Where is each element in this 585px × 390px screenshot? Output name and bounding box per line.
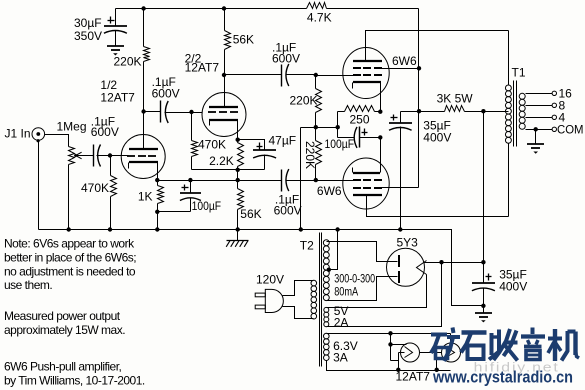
- wire 6.3V return: [327, 361, 451, 371]
- resistor R10 220K (upper bias): [289, 75, 321, 128]
- resistor R1 220K (V1a plate load): [113, 9, 149, 112]
- node COM ground tap: [534, 127, 538, 131]
- wire tap COM: [526, 127, 557, 131]
- note text block 2: [4, 309, 125, 337]
- wire to 6W6 no.1 grid: [316, 75, 355, 77]
- wire bias mid to ground drop: [301, 127, 316, 129]
- svg-text:5Y3: 5Y3: [397, 236, 419, 250]
- wire HV bottom tap to plate 2: [327, 277, 398, 301]
- svg-text:6W6: 6W6: [317, 184, 342, 198]
- V2 grid: [208, 111, 238, 113]
- ground (COM): [527, 144, 544, 154]
- node rail/35uF screen: [398, 227, 402, 231]
- watermark hifidiy.net: [474, 360, 560, 375]
- label 5Y3: [397, 236, 419, 250]
- label 6.3V 3A: [333, 339, 358, 365]
- wire to 6W6 no.2 grid: [316, 180, 355, 182]
- wire B+ rail right segment: [327, 8, 419, 10]
- node heater 1 return: [396, 368, 400, 372]
- node 100uF tap: [188, 178, 192, 182]
- svg-text:220K: 220K: [289, 94, 317, 108]
- V3 control grid: [353, 74, 382, 76]
- label 6W6 no.2: [317, 184, 342, 198]
- node screen junction no.1: [417, 66, 421, 70]
- node rail/1Meg: [67, 227, 71, 231]
- wire heater 2 top feed: [450, 334, 452, 343]
- note text block 1: [4, 237, 136, 293]
- capacitor C10 35uF 400V (reservoir): [472, 263, 527, 306]
- transformer T2 core: [320, 233, 322, 367]
- svg-text:better in place of the 6W6s;: better in place of the 6W6s;: [4, 250, 136, 264]
- svg-text:12AT7: 12AT7: [185, 61, 220, 75]
- wire tap 8: [526, 103, 557, 107]
- svg-text:400V: 400V: [499, 280, 527, 294]
- V4 control grid: [353, 179, 382, 181]
- V1a plate: [129, 148, 158, 150]
- svg-text:no adjustment is needed to: no adjustment is needed to: [4, 264, 136, 278]
- capacitor C3 .1uF 600V (to 6W6 no.1 grid): [225, 40, 316, 86]
- wire ground drop: [300, 128, 302, 230]
- wire heater drop: [390, 334, 392, 361]
- resistor R6 470K (V2 grid leak): [192, 113, 227, 170]
- resistor R11 220K (lower bias): [303, 128, 322, 181]
- node V1a cathode junction: [155, 178, 159, 182]
- pentode V3 6W6 no.1 envelope: [343, 48, 389, 99]
- node V2 cathode junction: [236, 138, 240, 142]
- wire 47uF bottom run: [238, 169, 265, 171]
- wire plug lower cord: [283, 307, 314, 319]
- title text block: [4, 360, 145, 388]
- wire COM to ground: [535, 130, 537, 145]
- V5 plate 1: [398, 255, 400, 267]
- svg-text:350V: 350V: [74, 29, 102, 43]
- node rail/56K tail: [236, 227, 240, 231]
- wire V4 cathode lead: [380, 138, 382, 173]
- node rail/HV center tap: [335, 227, 339, 231]
- node heater tap: [388, 331, 392, 335]
- wire between heaters: [420, 352, 442, 354]
- heater H1 12AT7: [401, 343, 420, 362]
- T2 HV secondary winding 300-0-300: [323, 240, 329, 301]
- resistor R9 56K (tail): [238, 181, 262, 230]
- label 4: [559, 111, 566, 125]
- svg-text:1Meg: 1Meg: [57, 120, 87, 134]
- node V2 grid leak tap: [189, 110, 193, 114]
- svg-text:use them.: use them.: [4, 278, 52, 292]
- label 1/2 12AT7: [100, 78, 135, 105]
- wire 1K bottom to ground rail: [157, 212, 159, 230]
- node B+ junction top: [481, 109, 485, 113]
- resistor R4 470K (grid leak): [81, 156, 117, 230]
- svg-text:220K: 220K: [113, 54, 141, 68]
- svg-text:470K: 470K: [198, 138, 226, 152]
- wire B+ top rail left segment: [116, 8, 307, 10]
- wire heater detour: [391, 353, 405, 370]
- resistor R8 1K: [138, 181, 164, 212]
- wire reservoir to ground: [483, 306, 485, 314]
- T2 6.3V winding: [324, 333, 330, 360]
- rectifier V5 5Y3 envelope: [387, 248, 425, 286]
- watermark www.crystalradio.cn: [432, 368, 573, 387]
- svg-text:30µF: 30µF: [74, 16, 102, 30]
- V2 plate: [209, 106, 238, 108]
- node heater junction: [388, 342, 392, 346]
- node rail/470K: [108, 227, 112, 231]
- wire screen supply drop: [418, 9, 420, 188]
- wire V1a plate lead: [143, 112, 145, 150]
- wire main ground rail: [39, 230, 484, 306]
- svg-text:approximately 15W max.: approximately 15W max.: [4, 323, 125, 337]
- node screen/3K junction: [417, 109, 421, 113]
- node reservoir ground junction: [481, 304, 485, 308]
- node cathode/250 junction: [378, 110, 382, 114]
- V3 plate lead wire: [366, 31, 509, 61]
- ground (mains earth, hatched): [226, 230, 248, 247]
- svg-text:80mA: 80mA: [334, 284, 358, 298]
- svg-text:Note: 6V6s appear to work: Note: 6V6s appear to work: [4, 237, 135, 251]
- wire to OPT center tap: [484, 111, 509, 113]
- svg-text:100µF: 100µF: [192, 199, 222, 213]
- svg-text:www.crystalradio.cn: www.crystalradio.cn: [432, 368, 573, 387]
- node B+/reservoir junction: [481, 260, 485, 264]
- svg-text:6W6: 6W6: [392, 54, 417, 68]
- capacitor C1 .1uF 600V (input coupling): [91, 115, 119, 167]
- pot wiper arrow: [74, 152, 93, 159]
- svg-text:6W6 Push-pull amplifier,: 6W6 Push-pull amplifier,: [4, 360, 122, 374]
- wire to heater 1 top: [391, 344, 407, 346]
- wire to V1a grid: [111, 155, 129, 157]
- node heater 2 return: [435, 353, 439, 372]
- svg-text:100µF: 100µF: [325, 137, 355, 151]
- wire V3 cathode lead: [380, 83, 382, 112]
- transformer T1 core: [514, 81, 517, 147]
- wire tap 16: [526, 91, 557, 95]
- wire HV top tap to plate 1: [327, 242, 398, 262]
- heater H2 12AT7: [442, 343, 461, 362]
- plug P1 120V: [255, 273, 284, 313]
- resistor R3 4.7K (inline on B+ rail): [307, 3, 332, 25]
- capacitor C4 47uF (cathode bypass): [238, 134, 297, 170]
- node V1a plate junction: [141, 109, 145, 113]
- resistor R5 56K (V2 plate load): [225, 31, 255, 75]
- capacitor C6 .1uF 600V (to 6W6 no.2 grid): [238, 169, 316, 217]
- svg-text:1K: 1K: [138, 190, 153, 204]
- svg-text:2A: 2A: [334, 316, 349, 330]
- node bias chain mid junction: [314, 125, 318, 129]
- node rail/1K: [155, 227, 159, 231]
- capacitor C9 35uF 400V (screen filter): [389, 112, 451, 230]
- wire V4 screen to supply: [382, 187, 419, 189]
- V4 screen grid: [353, 187, 382, 189]
- node 1K bottom junction: [155, 210, 159, 214]
- node 6W6 no.2 grid junction: [314, 178, 318, 182]
- label T2: [300, 239, 314, 253]
- wire HV center tap to ground: [329, 230, 338, 270]
- wire 56K to V2 plate: [224, 9, 226, 31]
- V4 cathode: [353, 168, 381, 174]
- capacitor C8 30uF 350V: [74, 9, 127, 47]
- label 12AT7: [396, 370, 431, 384]
- node 2.2K bottom junction: [236, 168, 240, 172]
- wire bias network left side: [337, 112, 339, 138]
- node B+ takeoff: [439, 260, 443, 264]
- svg-text:Measured power output: Measured power output: [4, 309, 121, 323]
- label T1: [512, 66, 526, 80]
- wire V2 plate lead: [224, 75, 226, 107]
- potentiometer R2 1Meg: [57, 120, 87, 230]
- connector J1 In: [5, 127, 45, 143]
- pentode V4 6W6 no.2 envelope: [343, 158, 389, 209]
- node HV center tap: [327, 268, 331, 272]
- V3 cathode: [353, 82, 382, 89]
- wire 5V bottom tap to B+ takeoff: [327, 263, 442, 327]
- wire V2 cathode lead: [237, 120, 239, 140]
- wire to splitter node: [237, 170, 239, 181]
- wire 6.3V top tap: [327, 333, 451, 335]
- label 8: [559, 99, 566, 113]
- label 16: [559, 87, 573, 101]
- wire bias mid to cathode network: [316, 127, 338, 129]
- label 6W6 no.1: [392, 54, 417, 68]
- V5 filament: [417, 261, 427, 275]
- svg-text:J1 In: J1 In: [5, 127, 31, 141]
- svg-text:600V: 600V: [91, 125, 119, 139]
- V3 screen grid: [353, 67, 382, 69]
- svg-text:47µF: 47µF: [269, 134, 297, 148]
- svg-text:T1: T1: [512, 66, 526, 80]
- wire jack ground: [38, 141, 40, 230]
- wire cathode node to splitter node: [158, 180, 238, 182]
- V5 plate 2: [398, 271, 400, 283]
- T2 5V winding: [324, 307, 329, 326]
- wire V1a cathode lead: [157, 163, 159, 181]
- node junction rail/56K: [222, 6, 226, 10]
- node rail/bias ground: [299, 227, 303, 231]
- svg-text:COM: COM: [557, 123, 584, 137]
- svg-text:12AT7: 12AT7: [396, 370, 431, 384]
- transformer T1 primary winding: [505, 31, 511, 217]
- ground (30uF): [107, 46, 124, 56]
- capacitor C5 100uF (V1a cathode bypass): [180, 181, 221, 214]
- node V1a grid junction: [108, 153, 112, 157]
- svg-text:4.7K: 4.7K: [307, 11, 332, 25]
- V2 cathode: [209, 120, 238, 126]
- wire 5V top tap to filament: [327, 275, 427, 308]
- svg-text:470K: 470K: [81, 181, 109, 195]
- svg-text:600V: 600V: [274, 204, 302, 218]
- V3 plate: [353, 60, 382, 62]
- capacitor C7 100uF (6W6 cathode bypass): [325, 127, 381, 152]
- T2 primary winding: [311, 280, 317, 319]
- transformer T1 secondary winding: [519, 93, 525, 129]
- label 2/2 12AT7: [185, 52, 220, 75]
- node V2 plate junction: [222, 73, 226, 77]
- node cathode/100uF junction: [378, 135, 382, 139]
- wire B+ riser: [483, 112, 485, 263]
- wire 100uF bottom: [158, 211, 191, 213]
- svg-text:56K: 56K: [240, 207, 261, 221]
- svg-text:400V: 400V: [423, 130, 451, 144]
- svg-text:120V: 120V: [256, 273, 284, 287]
- ground (reservoir): [475, 313, 492, 322]
- svg-text:by Tim Williams, 10-17-2001.: by Tim Williams, 10-17-2001.: [4, 374, 145, 388]
- wire 470K bottom run: [192, 169, 238, 171]
- svg-text:220K: 220K: [303, 141, 317, 169]
- svg-text:250: 250: [350, 113, 370, 127]
- V1a cathode: [129, 162, 159, 169]
- wire V3 screen to supply: [382, 68, 419, 70]
- node junction rail/220K: [141, 6, 145, 10]
- svg-text:600V: 600V: [152, 87, 180, 101]
- triode V1a 1/2 12AT7 envelope: [121, 135, 165, 179]
- svg-text:600V: 600V: [272, 52, 300, 66]
- V4 plate: [353, 194, 382, 196]
- watermark hanzi: [431, 328, 579, 362]
- V1a grid: [127, 155, 156, 157]
- svg-text:56K: 56K: [233, 33, 254, 47]
- node splitter junction: [236, 178, 240, 182]
- resistor R7 2.2K: [209, 140, 243, 170]
- capacitor C2 .1uF 600V (V1a plate to V2 grid): [144, 75, 203, 123]
- svg-text:2.2K: 2.2K: [209, 154, 234, 168]
- resistor R13 3K 5W: [419, 92, 484, 112]
- svg-text:12AT7: 12AT7: [100, 91, 135, 105]
- svg-text:3A: 3A: [333, 350, 348, 364]
- node 6W6 no.1 grid junction: [314, 73, 318, 77]
- svg-text:3K 5W: 3K 5W: [437, 92, 474, 106]
- label 300-0-300 80mA: [334, 272, 375, 299]
- wire jack to pot: [45, 135, 69, 147]
- wire V4 plate lead: [367, 196, 509, 217]
- svg-text:T2: T2: [300, 239, 314, 253]
- wire rectifier output: [425, 262, 484, 264]
- wire tap 4: [526, 115, 557, 119]
- label 5V 2A: [334, 304, 349, 330]
- resistor R12 250 (cathode bias): [338, 106, 381, 127]
- wire plug upper cord: [283, 281, 314, 296]
- triode V2 2/2 12AT7 envelope: [202, 93, 246, 137]
- label COM: [557, 123, 584, 137]
- node bias network ground tap: [336, 125, 340, 129]
